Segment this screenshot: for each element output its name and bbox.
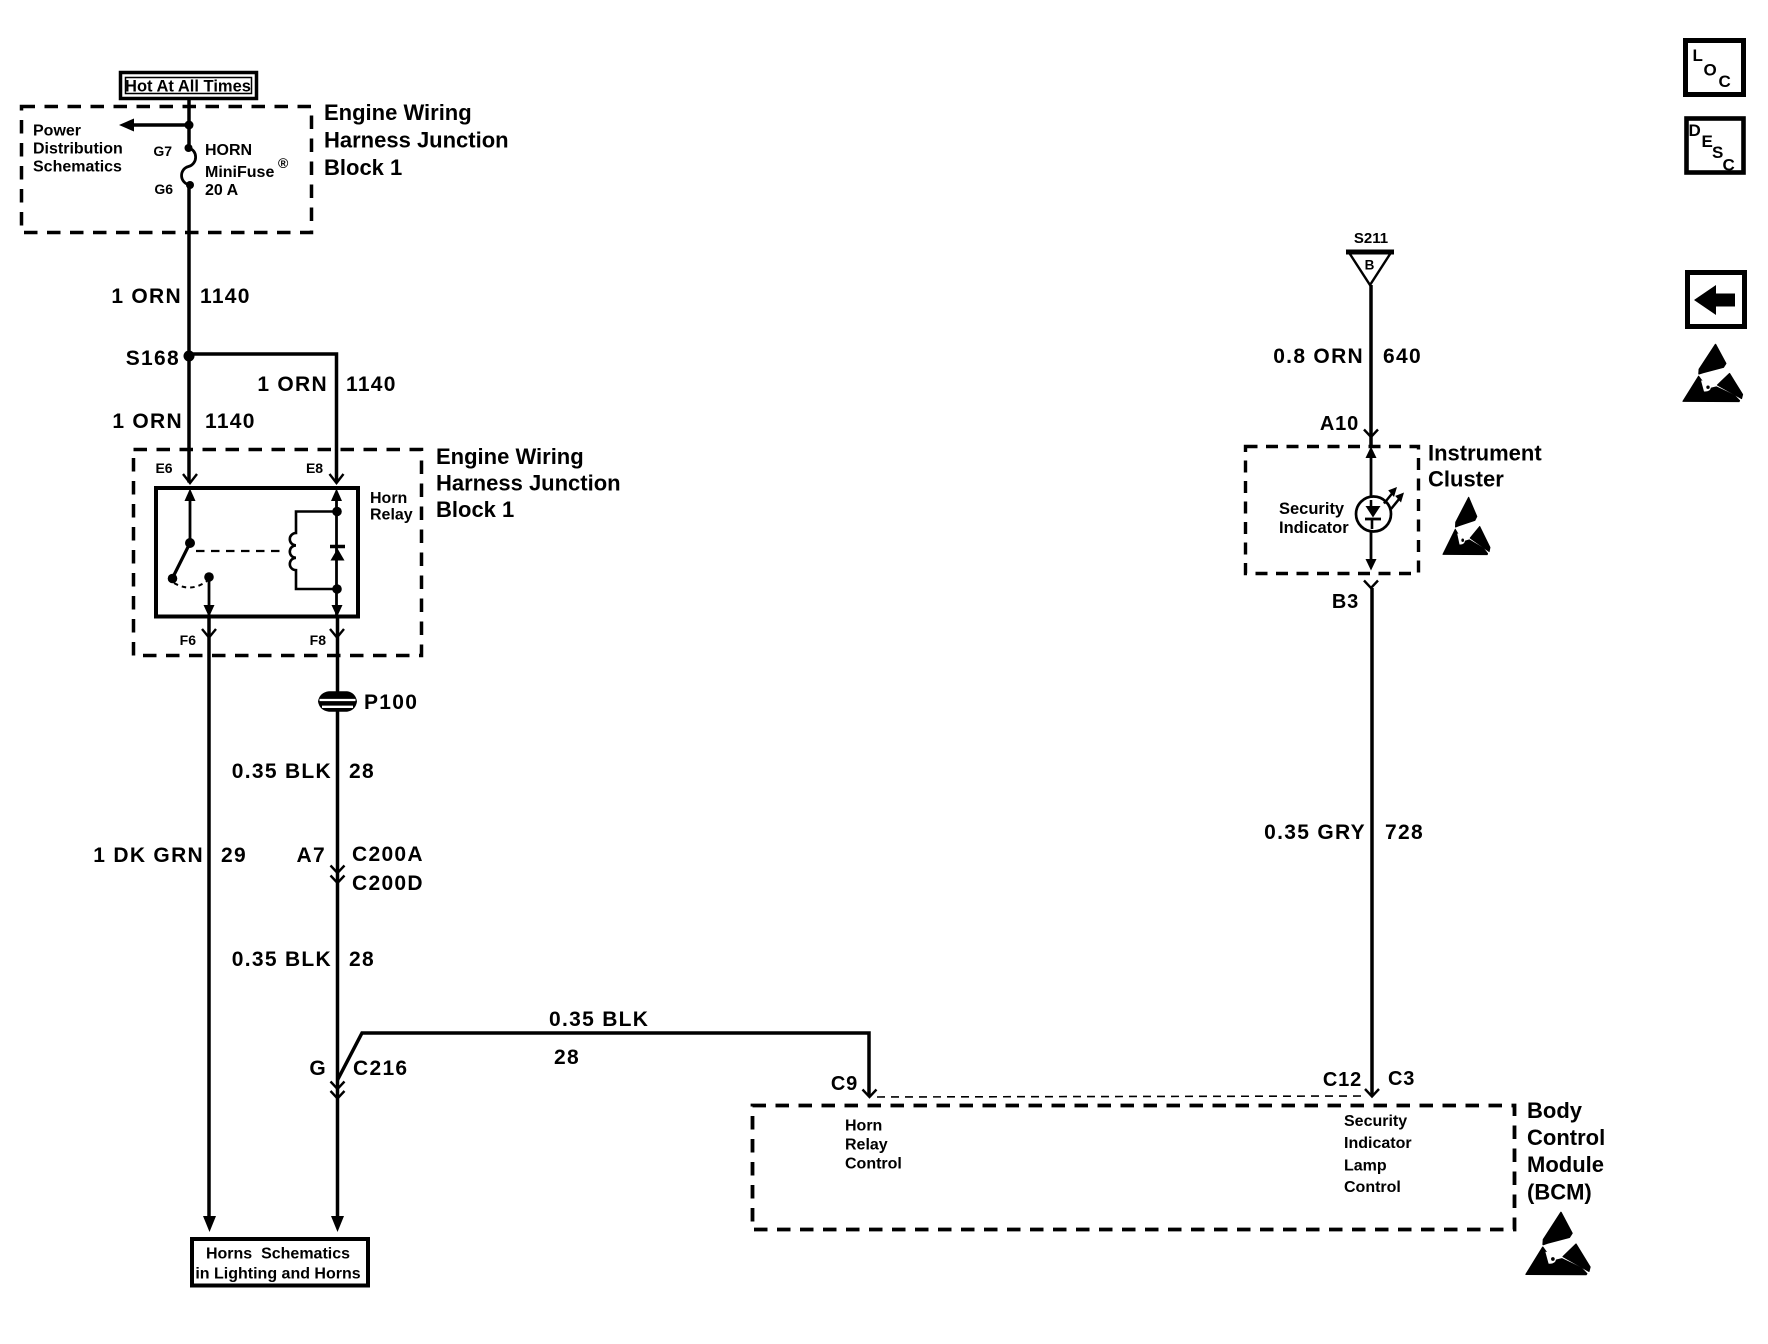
wire label 1 ORN 1140 (right branch) — [257, 373, 396, 396]
relay coil top node — [332, 507, 342, 517]
svg-text:640: 640 — [1383, 345, 1422, 368]
svg-text:1 ORN: 1 ORN — [112, 410, 183, 433]
connector chevron A10 — [1364, 430, 1378, 438]
svg-text:0.35 BLK: 0.35 BLK — [232, 760, 332, 783]
svg-text:C216: C216 — [353, 1057, 408, 1080]
arrow into horns box (right) — [331, 1216, 344, 1232]
dashed box Body Control Module — [753, 1106, 1515, 1230]
svg-text:20 A: 20 A — [205, 182, 239, 199]
svg-text:G: G — [309, 1057, 327, 1080]
svg-text:C3: C3 — [1388, 1068, 1415, 1090]
svg-text:Harness Junction: Harness Junction — [324, 128, 509, 153]
svg-text:Engine Wiring: Engine Wiring — [324, 100, 472, 125]
svg-text:Control: Control — [1344, 1179, 1401, 1196]
power feed box "Hot At All Times" — [121, 73, 257, 99]
svg-text:C: C — [1723, 156, 1735, 175]
wire from Hot At All Times down into fuse — [187, 100, 191, 148]
svg-text:1140: 1140 — [346, 373, 397, 396]
svg-text:0.35 BLK: 0.35 BLK — [549, 1008, 649, 1031]
svg-text:Cluster: Cluster — [1428, 467, 1504, 492]
svg-text:Relay: Relay — [370, 507, 413, 524]
svg-text:B3: B3 — [1332, 591, 1359, 613]
svg-text:A10: A10 — [1320, 413, 1359, 435]
relay coil bottom node — [332, 584, 342, 594]
svg-text:S168: S168 — [126, 347, 180, 370]
svg-text:E6: E6 — [155, 460, 172, 476]
LOC icon box — [1686, 41, 1744, 95]
svg-text:C200A: C200A — [352, 843, 424, 866]
wire C216 junction diagonal to horizontal run — [338, 1033, 870, 1096]
LED emission arrows — [1384, 487, 1404, 509]
svg-text:29: 29 — [221, 844, 247, 867]
security indicator LED — [1356, 497, 1391, 532]
svg-text:Power: Power — [33, 123, 81, 140]
svg-text:Horn: Horn — [370, 490, 407, 507]
svg-text:Block 1: Block 1 — [324, 155, 402, 180]
fuse value label — [205, 142, 289, 199]
svg-text:Horns Schematics: Horns Schematics — [206, 1246, 350, 1263]
wire B3 down to C12 — [1370, 588, 1374, 1096]
svg-text:Lamp: Lamp — [1344, 1158, 1387, 1175]
ESD symbol (BCM) — [1526, 1213, 1590, 1275]
svg-text:Relay: Relay — [845, 1137, 888, 1154]
grommet P100 — [319, 691, 419, 714]
svg-text:Body: Body — [1527, 1098, 1583, 1123]
svg-text:728: 728 — [1385, 821, 1424, 844]
thin dashed line C9 to C12 — [877, 1096, 1366, 1097]
label Horn Relay — [370, 490, 413, 524]
dashed arc between contacts — [174, 581, 207, 588]
svg-text:Horn: Horn — [845, 1118, 882, 1135]
svg-text:S211: S211 — [1354, 230, 1388, 247]
wire label 0.35 GRY 728 — [1264, 821, 1424, 844]
back arrow icon box — [1688, 273, 1745, 327]
svg-text:Module: Module — [1527, 1152, 1604, 1177]
svg-text:0.35 BLK: 0.35 BLK — [232, 948, 332, 971]
dashed box: Engine Wiring Harness Junction Block 1 (relay block) — [134, 450, 422, 656]
svg-text:Security: Security — [1344, 1113, 1407, 1130]
connector chevron F8 — [330, 629, 344, 638]
svg-text:G7: G7 — [153, 143, 172, 159]
connector chevron B3 — [1364, 581, 1378, 589]
svg-text:HORN: HORN — [205, 142, 252, 159]
arrow up at A10 inside cluster — [1366, 447, 1377, 499]
relay coil — [290, 512, 337, 590]
svg-text:L: L — [1693, 46, 1703, 65]
svg-text:Engine Wiring: Engine Wiring — [436, 444, 584, 469]
label Security Indicator Lamp Control — [1344, 1113, 1412, 1196]
svg-text:C200D: C200D — [352, 872, 424, 895]
label Engine Wiring Harness Junction Block 1 (relay block) — [436, 444, 621, 522]
horn relay box — [156, 488, 358, 617]
svg-text:G6: G6 — [154, 181, 173, 197]
svg-text:E8: E8 — [306, 460, 323, 476]
node S168 — [126, 347, 195, 370]
svg-text:Control: Control — [845, 1156, 902, 1173]
wire S211 to instrument cluster — [1369, 285, 1373, 446]
splice S211 triangle — [1346, 230, 1394, 285]
relay switch: E6 leg arrow up — [185, 489, 196, 549]
wire down to horns schematics (right) — [336, 1080, 340, 1217]
relay switch output to F6, arrow down — [204, 577, 215, 617]
connector C200A/C200D double chevron — [331, 866, 345, 884]
relay switch throw contact — [204, 572, 214, 582]
connector chevron E8 — [330, 474, 344, 483]
destination box Horns Schematics — [192, 1239, 368, 1286]
label Power Distribution Schematics — [33, 123, 123, 176]
connector chevron F6 — [202, 629, 216, 638]
wire label 1 ORN 1140 (upper) — [111, 285, 250, 308]
svg-text:Hot At All Times: Hot At All Times — [125, 78, 251, 96]
clamp diode across coil — [330, 547, 345, 561]
svg-text:F6: F6 — [180, 632, 197, 648]
svg-text:O: O — [1704, 61, 1717, 80]
svg-text:®: ® — [278, 155, 289, 171]
wire label 0.8 ORN 640 — [1273, 345, 1422, 368]
label Horn Relay Control — [845, 1118, 902, 1173]
arrow to Power Distribution Schematics — [119, 119, 194, 132]
svg-text:1140: 1140 — [205, 410, 256, 433]
wire label 1 DK GRN 29 — [93, 844, 247, 867]
svg-text:1 ORN: 1 ORN — [257, 373, 328, 396]
wire label 0.35 BLK 28 (horizontal run) — [549, 1008, 649, 1069]
svg-text:28: 28 — [349, 760, 375, 783]
label Body Control Module (BCM) — [1527, 1098, 1605, 1205]
svg-text:Indicator: Indicator — [1279, 519, 1349, 537]
arrow into horns box (left) — [203, 1216, 216, 1232]
connector chevron E6 — [183, 474, 197, 483]
wire F8 down through P100 to C216 junction — [336, 619, 340, 1081]
label Instrument Cluster — [1428, 441, 1542, 492]
svg-text:P100: P100 — [364, 691, 418, 714]
label Security Indicator — [1279, 500, 1349, 537]
svg-text:F8: F8 — [310, 632, 327, 648]
wire branch S168 to E8 — [189, 354, 337, 483]
svg-text:Harness Junction: Harness Junction — [436, 471, 621, 496]
wire label 0.35 BLK 28 (upper) — [232, 760, 375, 783]
svg-text:Control: Control — [1527, 1125, 1605, 1150]
svg-text:B: B — [1365, 258, 1375, 273]
label Engine Wiring Harness Junction Block 1 (top) — [324, 100, 509, 180]
svg-text:Schematics: Schematics — [33, 159, 122, 176]
svg-text:D: D — [1689, 121, 1701, 140]
fuse HORN MiniFuse 20 A — [182, 144, 196, 189]
svg-text:0.8 ORN: 0.8 ORN — [1273, 345, 1364, 368]
svg-text:in Lighting and Horns: in Lighting and Horns — [195, 1266, 360, 1283]
coil output arrow down to F8 — [332, 605, 343, 617]
svg-text:1 DK GRN: 1 DK GRN — [93, 844, 204, 867]
wire label 0.35 BLK 28 (lower) — [232, 948, 375, 971]
ESD symbol (instrument cluster) — [1443, 498, 1490, 555]
svg-text:Distribution: Distribution — [33, 141, 123, 158]
relay coil branch: E8 arrow down into box — [331, 489, 342, 617]
svg-text:A7: A7 — [297, 844, 326, 867]
svg-text:C12: C12 — [1323, 1069, 1362, 1091]
svg-text:28: 28 — [554, 1046, 580, 1069]
svg-text:1140: 1140 — [200, 285, 251, 308]
connector chevron C12 — [1365, 1089, 1379, 1097]
svg-text:(BCM): (BCM) — [1527, 1180, 1592, 1205]
svg-text:28: 28 — [349, 948, 375, 971]
wire label 1 ORN 1140 (left, below S168) — [112, 410, 255, 433]
svg-text:0.35 GRY: 0.35 GRY — [1264, 821, 1366, 844]
connector chevron C9 — [863, 1090, 877, 1098]
dashed box Instrument Cluster — [1246, 447, 1419, 574]
svg-text:1 ORN: 1 ORN — [111, 285, 182, 308]
dashed mechanical link switch to coil — [196, 550, 282, 552]
DESC icon box — [1687, 119, 1744, 175]
svg-text:C9: C9 — [831, 1073, 858, 1095]
wire fuse to S168 — [187, 185, 191, 483]
dashed box: Engine Wiring Harness Junction Block 1 (fuse block) — [22, 107, 312, 233]
wire F6 down to horns schematics — [207, 619, 211, 1218]
svg-text:C: C — [1719, 72, 1731, 91]
svg-text:Indicator: Indicator — [1344, 1135, 1412, 1152]
relay switch blade — [168, 543, 190, 583]
svg-text:Block 1: Block 1 — [436, 497, 514, 522]
connector C216 double chevron — [331, 1082, 345, 1099]
svg-text:MiniFuse: MiniFuse — [205, 164, 274, 181]
svg-text:Instrument: Instrument — [1428, 441, 1542, 466]
ESD symbol (top right) — [1683, 345, 1743, 402]
svg-text:Security: Security — [1279, 500, 1345, 518]
wire LED to B3, arrow down — [1366, 531, 1377, 571]
